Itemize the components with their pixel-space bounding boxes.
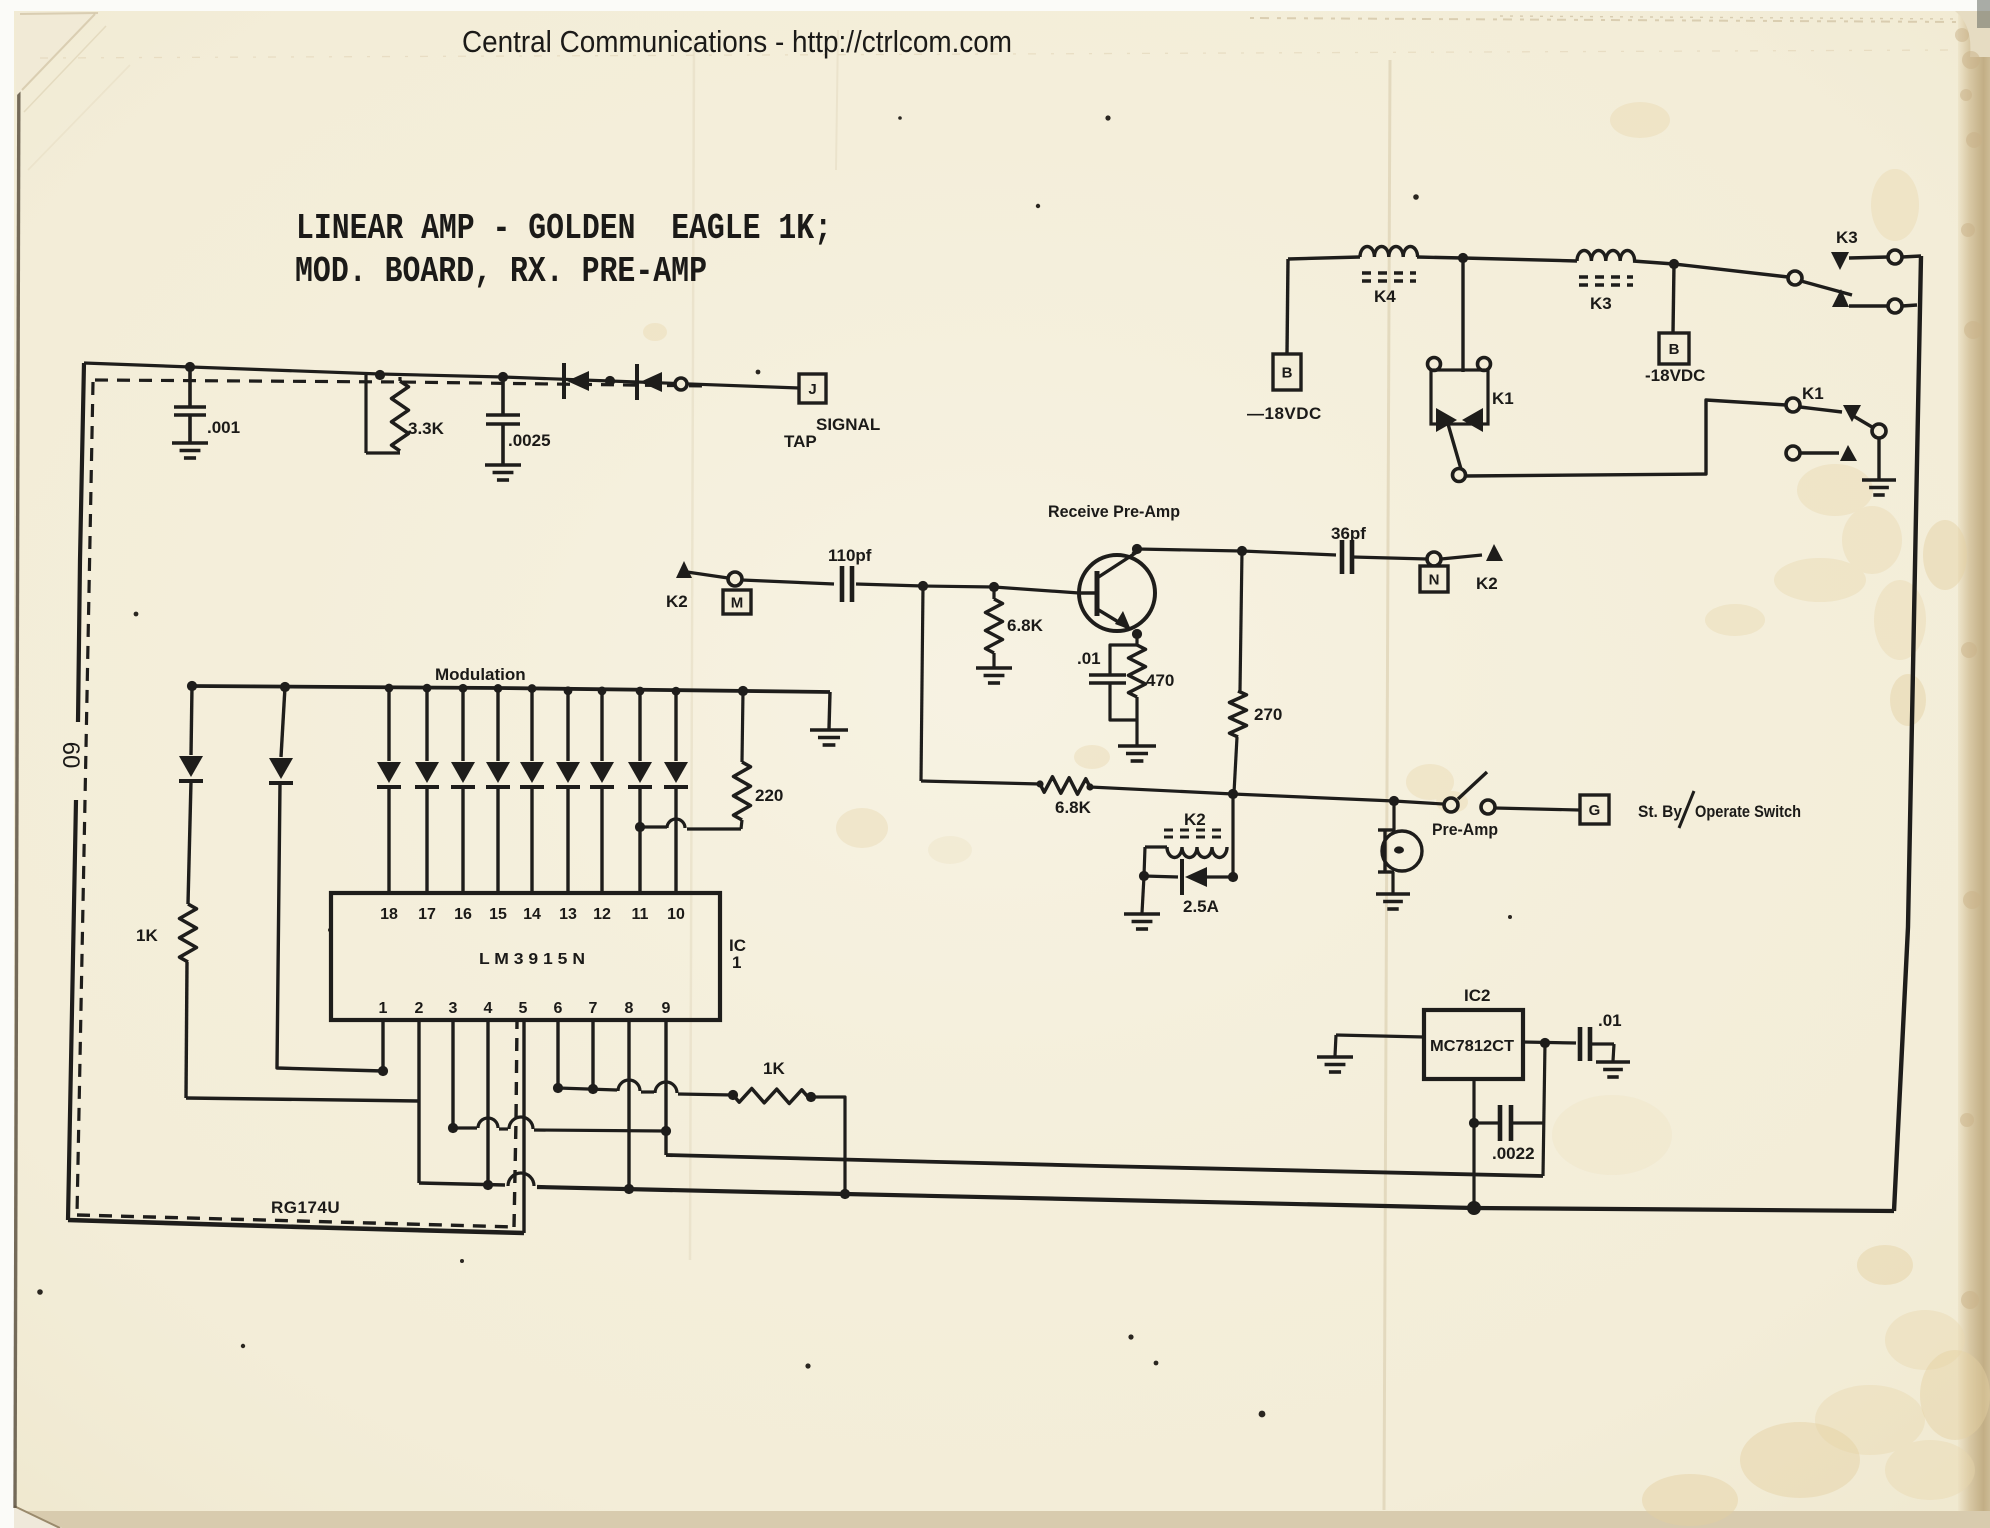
diode LED B column <box>281 687 285 757</box>
node .0025 junction <box>498 372 508 382</box>
svg-text:L M 3 9 1 5 N: L M 3 9 1 5 N <box>479 951 585 968</box>
wire LED pin11 to IC <box>638 787 641 893</box>
resistor 470 <box>1129 645 1146 697</box>
wire IC2 output <box>1523 1042 1576 1043</box>
svg-text:1: 1 <box>379 1000 388 1017</box>
wire 6.8K to K2 junction <box>1090 787 1233 794</box>
terminal K2 right triangle <box>1486 544 1503 561</box>
node -18VDC right junction <box>1669 259 1679 269</box>
svg-text:10: 10 <box>667 906 685 923</box>
switch K1 top contact <box>1800 407 1842 412</box>
wire 110pf to base <box>856 584 1079 593</box>
svg-text:K2: K2 <box>1476 574 1498 593</box>
wire LED pin16 to IC <box>461 787 464 893</box>
svg-text:11: 11 <box>632 906 649 923</box>
ground K1 switch <box>1862 478 1896 482</box>
ground 6.8K base <box>976 666 1012 670</box>
node lamp junction <box>1389 796 1399 806</box>
shield dashed border bottom <box>77 1215 514 1227</box>
diode LED pin12 <box>590 762 614 783</box>
wire emitter to network <box>1135 634 1138 645</box>
switch K1 lower contact circle <box>1786 446 1800 460</box>
node K2 diode left <box>1139 871 1149 881</box>
diode D2 (signal tap) <box>635 364 639 400</box>
wire LED pin13 to IC <box>566 787 569 893</box>
node K4-K1 junction <box>1458 253 1468 263</box>
capacitor 36pf <box>1340 540 1345 574</box>
svg-text:13: 13 <box>559 906 577 923</box>
ground .01 IC2 <box>1596 1060 1630 1064</box>
wire modulation bus <box>192 686 830 692</box>
svg-text:LINEAR AMP - GOLDEN EAGLE 1K;: LINEAR AMP - GOLDEN EAGLE 1K; <box>296 208 832 249</box>
wire 1K to corner <box>811 1097 845 1194</box>
svg-text:.01: .01 <box>1077 649 1101 668</box>
wire 1K col to pin2 <box>186 1098 419 1101</box>
diode LED pin15 column <box>496 689 499 761</box>
wire LED pin10 to IC <box>674 787 677 893</box>
wire to K1 relay coil <box>1461 258 1464 372</box>
wire pin6-7 to 1K <box>558 1088 617 1090</box>
wire M to 110pf <box>742 580 834 584</box>
node 3.3K junction <box>375 370 385 380</box>
svg-text:36pf: 36pf <box>1331 524 1366 543</box>
node bus pin15 <box>494 684 503 693</box>
svg-text:N: N <box>1429 571 1440 588</box>
node M contact circle <box>728 572 742 586</box>
wire pin6 stub <box>556 1020 559 1088</box>
svg-text:270: 270 <box>1254 705 1282 724</box>
node pin8 junction <box>624 1184 634 1194</box>
diode D1 (signal tap) <box>562 363 566 399</box>
wire LED pin15 to IC <box>496 787 499 893</box>
wire relay arm to K1 switch <box>1465 400 1786 476</box>
switch K3 pivot contact <box>1788 271 1802 285</box>
node bus pin14 <box>528 684 537 693</box>
diode LED pin15 <box>486 762 510 783</box>
diode LED A column <box>191 686 192 755</box>
inductor K3 <box>1577 251 1635 262</box>
node 270 top junction <box>1237 546 1247 556</box>
wire IC2 output down <box>1543 1043 1545 1176</box>
diode LED pin17 <box>415 762 439 783</box>
ground modulation bus <box>810 728 848 732</box>
wire right bus <box>1894 256 1921 1211</box>
diode LED pin17 column <box>425 688 428 761</box>
node pin9 junction <box>661 1126 671 1136</box>
shield dashed border right (to IC pin5) <box>514 1022 517 1227</box>
wire IC2 input <box>1336 1035 1424 1037</box>
switch K1 pivot contact <box>1786 398 1800 412</box>
diode LED pin11 column <box>638 690 641 761</box>
svg-text:MC7812CT: MC7812CT <box>1430 1038 1514 1055</box>
resistor 1K (bottom) <box>733 1089 808 1104</box>
shield box solid border left lower <box>68 800 76 1220</box>
shield box solid border bottom <box>68 1220 524 1233</box>
diode LED pin18 column <box>387 688 390 761</box>
node 220-pin11 junction <box>635 822 645 832</box>
wire IC2 bottom pin <box>1472 1079 1475 1208</box>
wire pin4 stub <box>486 1020 489 1185</box>
shield dashed border top <box>95 380 705 386</box>
wire base column down <box>921 586 923 781</box>
switch K3 top contact <box>1831 252 1849 270</box>
svg-text:St. By: St. By <box>1638 802 1682 821</box>
wire K3 to switch <box>1633 261 1788 277</box>
svg-text:Pre-Amp: Pre-Amp <box>1432 820 1498 839</box>
wire -18VDC feed <box>1288 257 1360 259</box>
svg-text:-18VDC: -18VDC <box>1645 366 1705 385</box>
wire pin7 stub <box>591 1020 594 1089</box>
svg-text:K2: K2 <box>666 592 688 611</box>
terminal K2 left triangle <box>676 561 692 578</box>
node bus pin10 <box>672 687 681 696</box>
svg-text:K1: K1 <box>1492 389 1514 408</box>
node base junction 2 <box>989 582 999 592</box>
wire K4 to K3 <box>1417 257 1577 261</box>
wire LED pin12 to IC <box>600 787 603 893</box>
svg-text:15: 15 <box>489 906 507 923</box>
node bus pin13 <box>564 686 573 695</box>
svg-text:RG174U: RG174U <box>271 1198 340 1217</box>
IC U1 LM3915N box <box>331 893 720 1020</box>
connector M box <box>723 590 751 614</box>
svg-text:110pf: 110pf <box>828 546 872 565</box>
connector J box <box>799 374 826 403</box>
diode LED pin16 column <box>461 688 464 761</box>
diode LED pin13 <box>556 762 580 783</box>
wire to B battery right <box>1673 264 1674 333</box>
svg-text:K3: K3 <box>1590 294 1612 313</box>
wire pin3 to pin9 <box>453 1126 477 1129</box>
wire switch to G <box>1495 808 1579 810</box>
wire 220 to pin11 col <box>687 827 741 830</box>
node bus pin17 <box>423 684 432 693</box>
transistor Q1 (receive pre-amp) <box>1079 555 1155 631</box>
svg-text:14: 14 <box>523 906 541 923</box>
resistor 3.3K <box>364 374 367 453</box>
wire K2 to ground <box>1142 876 1144 913</box>
resistor 6.8K (bias) <box>1040 777 1090 795</box>
svg-text:6.8K: 6.8K <box>1055 798 1092 817</box>
svg-text:2.5A: 2.5A <box>1183 897 1219 916</box>
wire LED B down <box>277 783 383 1071</box>
svg-text:B: B <box>1669 341 1680 358</box>
svg-text:Operate Switch: Operate Switch <box>1695 802 1801 821</box>
diode LED pin11 <box>628 762 652 783</box>
node 1K right <box>806 1092 816 1102</box>
svg-text:—18VDC: —18VDC <box>1247 404 1322 423</box>
svg-text:9: 9 <box>662 1000 671 1017</box>
svg-text:3: 3 <box>449 1000 458 1017</box>
switch K1 arm contact circle <box>1872 424 1886 438</box>
wire LED A to 1K <box>188 781 191 904</box>
wire K3 top to bus <box>1902 256 1921 257</box>
node .0022 left junction <box>1469 1118 1479 1128</box>
svg-text:6: 6 <box>554 1000 563 1017</box>
wire collector bus <box>1137 549 1336 555</box>
diode LED B <box>269 758 293 779</box>
switch K3 top contact circle <box>1888 250 1902 264</box>
wire junction to preamp lamp <box>1233 794 1394 801</box>
svg-text:J: J <box>808 381 816 398</box>
node IC2 bottom junction <box>1467 1201 1481 1215</box>
svg-text:K3: K3 <box>1836 228 1858 247</box>
ground preamp lamp <box>1376 892 1410 896</box>
battery B box left <box>1273 354 1301 390</box>
diode LED pin16 <box>451 762 475 783</box>
inductor K4 <box>1360 246 1418 257</box>
svg-text:12: 12 <box>593 906 611 923</box>
node bus left <box>187 681 197 691</box>
resistor 6.8K (base) <box>992 587 995 599</box>
wire pin1 stub <box>381 1020 384 1071</box>
node bus pin16 <box>459 684 468 693</box>
diode LED pin10 column <box>674 690 677 761</box>
svg-text:.0022: .0022 <box>1492 1144 1535 1163</box>
ground .0025 <box>485 463 521 467</box>
svg-text:5: 5 <box>519 1000 528 1017</box>
diode LED pin18 <box>377 762 401 783</box>
connector G box <box>1580 795 1609 824</box>
diode LED pin12 column <box>600 689 603 761</box>
switch K3 lower contact <box>1832 289 1849 307</box>
wire pin9 long (mid rail) <box>666 1155 1543 1176</box>
wire pin2 stub <box>417 1020 420 1183</box>
wire bus end down <box>829 692 830 729</box>
node bus pin12 <box>598 686 607 695</box>
svg-text:IC2: IC2 <box>1464 986 1490 1005</box>
relay K2 coil <box>1164 829 1226 832</box>
svg-text:470: 470 <box>1146 671 1174 690</box>
switch St.By pivot circle <box>1444 798 1458 812</box>
node 6.8K bias left <box>1036 780 1043 787</box>
svg-text:1K: 1K <box>763 1059 785 1078</box>
slash operate <box>1679 791 1694 828</box>
svg-text:18: 18 <box>380 906 398 923</box>
diode LED pin14 column <box>530 689 533 761</box>
wire pin8 stub <box>627 1020 630 1189</box>
svg-text:K4: K4 <box>1374 287 1396 306</box>
ground IC2 input <box>1317 1055 1353 1059</box>
wire K3 lower to bus <box>1902 305 1917 306</box>
node bus diode2 <box>280 682 290 692</box>
node bus 220 <box>738 686 748 696</box>
resistor 1K (left) <box>180 904 197 962</box>
node 1K left <box>728 1090 738 1100</box>
svg-text:1K: 1K <box>136 926 158 945</box>
wire to 6.8K bias <box>921 781 1040 784</box>
wire LED pin18 to IC <box>387 787 390 893</box>
svg-text:6.8K: 6.8K <box>1007 616 1044 635</box>
svg-text:Receive Pre-Amp: Receive Pre-Amp <box>1048 502 1180 521</box>
ground emitter network <box>1118 744 1156 748</box>
svg-text:8: 8 <box>625 1000 634 1017</box>
node pin3 junction <box>448 1123 458 1133</box>
svg-text:1: 1 <box>732 953 741 972</box>
switch St.By second circle <box>1481 800 1495 814</box>
svg-text:.0025: .0025 <box>508 431 551 450</box>
node relay K1 arm contact <box>1453 469 1466 482</box>
capacitor .01 (IC2) <box>1578 1027 1583 1061</box>
capacitor .0022 <box>1474 1121 1498 1124</box>
diode LED pin10 <box>664 762 688 783</box>
svg-text:2: 2 <box>415 1000 424 1017</box>
switch K1 lower contact <box>1800 451 1839 454</box>
wire LED pin14 to IC <box>530 787 533 893</box>
relay K1 (coil/armature) <box>1428 358 1441 371</box>
wire N to K2 <box>1441 555 1482 559</box>
capacitor .01 (emitter) <box>1110 645 1137 675</box>
ground K2 relay <box>1124 912 1160 916</box>
node open circle before J <box>675 378 687 390</box>
node IC2 output junction <box>1540 1038 1550 1048</box>
wire pin2 long (bottom rail) <box>419 1183 505 1185</box>
node pin6 junction <box>553 1083 563 1093</box>
svg-text:220: 220 <box>755 786 783 805</box>
wire pin3 stub <box>451 1020 454 1128</box>
ground .001 <box>172 441 208 445</box>
diode LED A <box>179 756 203 777</box>
node bus pin11 <box>636 687 645 696</box>
wire K2 relay column <box>1231 794 1234 877</box>
battery B box right <box>1659 333 1689 364</box>
svg-text:K1: K1 <box>1802 384 1824 403</box>
preamp lamp DS1 <box>1392 801 1395 831</box>
wire collector up <box>1133 548 1137 554</box>
wire pin5 stub (to shield) <box>522 1020 525 1233</box>
node K2 diode right <box>1228 872 1238 882</box>
svg-text:7: 7 <box>589 1000 598 1017</box>
svg-text:TAP: TAP <box>784 432 817 451</box>
node 6.8K bias right <box>1086 783 1093 790</box>
svg-text:G: G <box>1589 802 1601 819</box>
svg-text:SIGNAL: SIGNAL <box>816 415 880 434</box>
svg-text:Central Communications - http:: Central Communications - http://ctrlcom.… <box>462 24 1012 59</box>
diode LED pin13 column <box>566 689 569 761</box>
node K2 relay top junction <box>1228 789 1238 799</box>
connector N box <box>1420 566 1448 592</box>
shield box solid border left <box>78 363 84 722</box>
svg-text:MOD. BOARD, RX. PRE-AMP: MOD. BOARD, RX. PRE-AMP <box>295 251 707 292</box>
node .001 junction <box>185 362 195 372</box>
svg-text:.001: .001 <box>207 418 240 437</box>
capacitor .001 <box>188 367 192 407</box>
wire to switch contact <box>1394 801 1443 804</box>
wire signal tap <box>84 363 799 388</box>
wire to B battery left <box>1287 259 1288 354</box>
node between diodes <box>605 376 615 386</box>
switch St.By arm <box>1458 772 1487 799</box>
svg-text:4: 4 <box>484 1000 493 1017</box>
node pin1 junction <box>378 1066 388 1076</box>
resistor 270 <box>1240 551 1242 691</box>
node pin4 junction <box>483 1180 493 1190</box>
node base junction 1 <box>918 581 928 591</box>
svg-text:3.3K: 3.3K <box>408 419 445 438</box>
diode 2.5A <box>1144 876 1178 877</box>
switch K1 arm <box>1850 414 1872 427</box>
switch K3 arm <box>1801 281 1852 295</box>
wire pin9 stub <box>664 1020 667 1155</box>
capacitor 110pf <box>840 566 845 602</box>
wire K2 to M <box>687 572 728 578</box>
svg-text:60: 60 <box>57 742 84 769</box>
svg-text:K2: K2 <box>1184 810 1206 829</box>
switch K3 lower contact circle <box>1888 299 1902 313</box>
resistor 220 <box>742 691 743 762</box>
svg-text:16: 16 <box>454 906 472 923</box>
node 1K-corner junction <box>840 1189 850 1199</box>
svg-text:Modulation: Modulation <box>435 665 526 684</box>
svg-text:B: B <box>1282 364 1293 381</box>
node pin7 junction <box>588 1084 598 1094</box>
shield dashed border left <box>77 382 93 1215</box>
node bus pin18 <box>385 684 394 693</box>
node emitter junction <box>1132 629 1142 639</box>
svg-text:.01: .01 <box>1598 1011 1622 1030</box>
diode LED pin14 <box>520 762 544 783</box>
svg-text:M: M <box>731 594 744 611</box>
svg-text:17: 17 <box>418 906 436 923</box>
node collector junction <box>1132 544 1142 554</box>
capacitor .0025 <box>501 377 505 415</box>
node N contact circle <box>1427 552 1441 566</box>
wire LED pin17 to IC <box>425 787 428 893</box>
wire 36pf to N <box>1353 557 1427 559</box>
IC U2 MC7812CT box <box>1424 1010 1523 1079</box>
wire K1 to ground <box>1877 438 1880 479</box>
